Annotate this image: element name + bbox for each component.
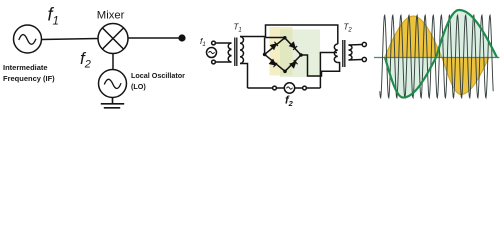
svg-text:f2: f2 xyxy=(80,49,91,71)
diode ring diamond xyxy=(265,38,301,72)
wire T2 sec top xyxy=(349,44,363,47)
time axis xyxy=(374,57,500,59)
wire xyxy=(42,39,99,40)
terminal out bottom xyxy=(362,57,366,61)
svg-text:(LO): (LO) xyxy=(131,82,146,91)
mixer X xyxy=(102,28,123,49)
node top vertex xyxy=(283,36,287,40)
node left vertex xyxy=(263,53,267,57)
T1 core xyxy=(235,38,237,67)
wire to top vertex xyxy=(266,37,285,39)
diode D3 lower-left xyxy=(270,59,278,67)
svg-text:f1: f1 xyxy=(48,5,59,28)
wire right vertex to T2 bottom xyxy=(301,55,340,76)
svg-text:T1: T1 xyxy=(234,23,242,34)
wire center tap xyxy=(320,53,337,89)
source V1 (IF signal) xyxy=(14,25,42,53)
sine symbol in V1 xyxy=(19,35,36,45)
highlight box green xyxy=(280,30,320,78)
terminal xyxy=(303,86,307,90)
wire T2 sec bottom xyxy=(349,59,363,62)
wire top rail xyxy=(266,25,338,44)
junction dots on diamond xyxy=(263,36,303,73)
output envelope fill (pale green) xyxy=(385,10,497,97)
wire xyxy=(215,61,231,63)
wire xyxy=(215,42,231,44)
transformer T2 primary xyxy=(334,44,338,63)
signal f1 wave (yellow) xyxy=(385,16,490,94)
node bottom vertex xyxy=(283,70,287,74)
sine symbol in V2 xyxy=(104,79,121,88)
T2 core xyxy=(343,40,345,67)
terminal xyxy=(273,86,277,90)
ground xyxy=(101,98,124,108)
highlight box yellow xyxy=(270,27,293,76)
transformer T2 secondary xyxy=(349,45,353,60)
svg-text:f2: f2 xyxy=(285,95,294,109)
mixer U1 xyxy=(98,24,128,54)
svg-text:f1: f1 xyxy=(200,36,206,48)
svg-text:Mixer: Mixer xyxy=(97,10,125,22)
source f2 circle xyxy=(284,83,294,93)
terminal bottom xyxy=(212,60,216,64)
svg-text:Intermediate: Intermediate xyxy=(3,63,48,72)
node (output dot) xyxy=(178,34,185,41)
node right vertex xyxy=(299,53,303,57)
wire to left vertex xyxy=(264,38,266,55)
svg-text:T2: T2 xyxy=(344,23,353,34)
diode D2 upper-right xyxy=(290,42,298,50)
wire xyxy=(112,54,114,70)
source f1 circle xyxy=(207,48,217,58)
terminal top xyxy=(212,41,216,45)
svg-text:Frequency (IF): Frequency (IF) xyxy=(3,74,55,83)
source V2 (LO) xyxy=(99,70,127,98)
output envelope stroke (green) xyxy=(385,10,497,97)
transformer T1 primary xyxy=(228,43,231,62)
carrier f2 (high-frequency) xyxy=(380,15,493,97)
wire bottom rail xyxy=(248,87,321,89)
wire T1 sec bottom xyxy=(240,64,248,89)
svg-text:Local Oscillator: Local Oscillator xyxy=(131,71,185,80)
diode D1 upper-left xyxy=(270,42,278,50)
wire xyxy=(128,37,182,39)
diode D4 lower-right xyxy=(290,60,298,68)
transformer T1 secondary xyxy=(240,37,244,64)
wire T1 sec top xyxy=(240,36,266,38)
terminal out top xyxy=(362,42,366,46)
